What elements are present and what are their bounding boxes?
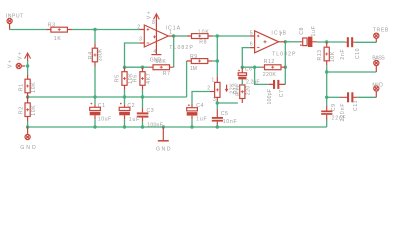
svg-text:V+: V+ — [146, 11, 152, 19]
resistor R5 — [122, 67, 127, 90]
node junction outA feedback — [172, 34, 175, 37]
svg-text:R9: R9 — [190, 54, 197, 60]
wire pot column from R8 row — [216, 36, 218, 77]
svg-text:100pF: 100pF — [267, 89, 273, 105]
wire R5 column to bias rail — [124, 90, 126, 97]
wire pin6 row — [242, 48, 250, 68]
svg-text:GND: GND — [156, 146, 171, 152]
capacitor C6 polarized — [238, 67, 246, 79]
svg-text:C10: C10 — [355, 48, 361, 59]
resistor R8 — [187, 34, 213, 39]
svg-text:C4: C4 — [196, 103, 203, 109]
svg-text:C2: C2 — [127, 103, 134, 109]
wire R6 column to bias rail — [142, 90, 144, 97]
svg-text:GND: GND — [20, 145, 36, 151]
svg-text:C9: C9 — [331, 104, 337, 111]
supply symbol V+ arrow left — [25, 53, 31, 61]
resistor R13 — [324, 42, 329, 65]
wire V+ to R1 — [27, 66, 29, 75]
wire C2 bottom stub — [124, 119, 126, 127]
svg-text:R6: R6 — [132, 75, 138, 82]
connector pad MID — [374, 86, 379, 97]
capacitor C1 polarized — [90, 103, 101, 120]
op-amp IC1B — [250, 31, 285, 53]
connector pad BASS — [374, 60, 379, 72]
capacitor C4 polarized — [187, 104, 198, 120]
svg-text:C11: C11 — [353, 100, 359, 111]
svg-text:10K: 10K — [198, 29, 210, 35]
wire R13 column lower — [326, 65, 328, 97]
svg-text:10nF: 10nF — [223, 119, 237, 125]
node junction R13 top — [325, 40, 328, 43]
node junction R3/R4 — [93, 28, 96, 31]
svg-text:C3: C3 — [147, 108, 154, 114]
node junction gnd C1 — [93, 125, 96, 128]
svg-text:10K: 10K — [330, 51, 336, 62]
capacitor C10 — [345, 37, 355, 47]
svg-text:3: 3 — [213, 97, 216, 103]
wire R8 right to pin5 — [213, 35, 250, 37]
svg-text:8: 8 — [152, 20, 155, 26]
svg-text:2.2nF: 2.2nF — [246, 79, 260, 85]
node junction R12 right — [284, 66, 287, 69]
connector pad GND — [25, 127, 30, 140]
wire pot bottom row — [217, 101, 238, 103]
resistor R12 — [261, 65, 285, 70]
wire pin3 row — [125, 43, 140, 67]
capacitor C8 polarized — [300, 37, 317, 47]
svg-text:1K: 1K — [54, 36, 62, 42]
svg-text:10K: 10K — [31, 82, 37, 93]
node junction gnd C4 — [190, 125, 193, 128]
svg-text:1M: 1M — [190, 66, 197, 72]
wire R12 row left — [242, 66, 261, 68]
node junction C6 top — [241, 66, 244, 69]
capacitor C7 — [269, 80, 286, 89]
svg-text:R8: R8 — [199, 40, 206, 46]
svg-text:BASS: BASS — [372, 56, 385, 62]
svg-text:2nF: 2nF — [340, 49, 346, 60]
wire C2 top stub — [124, 97, 126, 104]
wire feedback column A — [173, 36, 175, 67]
wire R9 right gap — [212, 60, 217, 62]
wire C5 column — [216, 103, 218, 110]
svg-text:5: 5 — [250, 30, 253, 36]
capacitor C2 polarized — [119, 103, 130, 120]
wire R4 column upper — [94, 30, 96, 44]
svg-text:R12: R12 — [264, 59, 275, 65]
node junction bias C1 — [93, 95, 96, 98]
capacitor C11 — [340, 92, 357, 102]
resistor R1 — [25, 75, 30, 97]
svg-text:10K: 10K — [31, 105, 37, 116]
svg-text:C7: C7 — [279, 90, 285, 97]
capacitor C3 — [137, 108, 149, 121]
wire C9 bottom to gnd rail — [326, 120, 328, 128]
wire MID row right — [357, 96, 376, 98]
wire C7 left column — [255, 67, 269, 84]
svg-text:C1: C1 — [98, 103, 105, 109]
wire C8 to C10 — [317, 41, 345, 43]
resistor R11 — [240, 79, 245, 103]
wire C9 top stub — [326, 97, 328, 106]
wire R9 left column to bias rail — [186, 61, 188, 97]
ground symbol IC1A pin4 — [151, 54, 161, 56]
svg-text:220nF: 220nF — [340, 104, 346, 122]
wire C1 top stub — [94, 97, 96, 104]
svg-text:R7: R7 — [163, 71, 170, 77]
svg-text:1: 1 — [211, 77, 214, 83]
node junction V+ — [26, 64, 29, 67]
wire outB to C8 — [285, 41, 299, 43]
svg-text:C6: C6 — [245, 67, 252, 73]
svg-text:330K: 330K — [98, 48, 104, 61]
svg-text:C5: C5 — [221, 111, 228, 117]
wire ground rail — [28, 126, 327, 128]
svg-text:R4: R4 — [88, 52, 94, 59]
wire R7 row left — [125, 66, 149, 68]
wire C4 bottom stub — [191, 119, 193, 127]
node junction pot bottom — [216, 101, 219, 104]
resistor R3 — [46, 27, 72, 32]
svg-text:1uF: 1uF — [129, 117, 140, 123]
node junction MID/C9 — [325, 96, 328, 99]
supply symbol V+ arrow IC1A — [154, 14, 160, 31]
svg-text:2: 2 — [207, 86, 210, 92]
resistor R7 — [149, 65, 174, 70]
potentiometer R10 — [210, 77, 228, 101]
svg-text:220: 220 — [246, 86, 252, 96]
svg-text:V+: V+ — [17, 52, 23, 60]
connector pad TREB — [374, 33, 379, 42]
svg-text:INPUT: INPUT — [6, 14, 24, 20]
capacitor C5 — [212, 110, 223, 125]
svg-text:7: 7 — [279, 32, 282, 38]
wire C3 bottom stub — [142, 121, 144, 127]
capacitor C9 — [321, 106, 332, 120]
node junction gnd C3 — [141, 125, 144, 128]
node junction out B — [284, 40, 287, 43]
wire C1 bottom stub — [94, 119, 96, 127]
svg-text:GND: GND — [150, 58, 162, 64]
svg-text:100nF: 100nF — [147, 123, 163, 129]
connector pad INPUT — [7, 18, 12, 29]
wire out A to R8 — [174, 35, 187, 37]
svg-text:4: 4 — [153, 49, 156, 55]
wire input row — [10, 29, 47, 31]
svg-text:10uF: 10uF — [98, 117, 112, 123]
wire input row right of R3 — [72, 29, 140, 31]
svg-text:C8: C8 — [299, 27, 305, 34]
svg-text:R3: R3 — [48, 22, 55, 28]
node junction C7 branch — [253, 66, 256, 69]
node junction gnd C2 — [123, 125, 126, 128]
op-amp IC1A — [140, 25, 174, 54]
svg-text:TREB: TREB — [373, 28, 389, 34]
svg-text:2: 2 — [137, 25, 140, 31]
node junction R6 top — [141, 66, 144, 69]
ground symbol bottom rail — [158, 127, 169, 141]
node junction bias R1R2 — [26, 95, 29, 98]
wire bias rail — [28, 96, 187, 98]
node junction BASS — [325, 70, 328, 73]
connector pad V+ — [16, 63, 25, 68]
svg-text:TL082P: TL082P — [169, 45, 193, 51]
svg-text:R1: R1 — [18, 84, 24, 91]
svg-text:1uF: 1uF — [196, 116, 207, 122]
wire R2 bottom to gnd rail — [27, 121, 29, 127]
wire MID row left — [327, 96, 340, 98]
node junction gnd rail left — [26, 125, 29, 128]
wire BASS row — [327, 71, 377, 73]
svg-text:R13: R13 — [317, 50, 323, 61]
wire wiper row — [192, 92, 210, 104]
svg-text:1: 1 — [169, 30, 172, 36]
svg-text:1uF: 1uF — [311, 26, 317, 37]
svg-text:R11: R11 — [236, 85, 242, 96]
wire C3 top stub — [142, 97, 144, 108]
resistor R4 — [92, 43, 97, 66]
node junction gnd C5 — [216, 125, 219, 128]
node junction bias C2 — [123, 95, 126, 98]
svg-text:TL082P: TL082P — [272, 52, 296, 58]
svg-text:6: 6 — [250, 42, 253, 48]
svg-text:IC1A: IC1A — [166, 26, 181, 32]
node junction gnd symbol — [162, 125, 165, 128]
wire pin7 column — [284, 42, 286, 85]
node junction pin3/R5 — [123, 66, 126, 69]
resistor R9 — [187, 59, 213, 64]
node junction bias C3 — [141, 95, 144, 98]
wire C5 bottom stub — [216, 125, 218, 128]
wire R4 column lower to bias rail — [94, 67, 96, 97]
wire V+ arrow stem — [27, 60, 29, 66]
node junction R8 right — [216, 34, 219, 37]
svg-text:MID: MID — [372, 82, 383, 88]
node junction R9 right — [216, 59, 219, 62]
svg-text:V+: V+ — [8, 60, 14, 68]
svg-text:220K: 220K — [263, 72, 277, 78]
svg-text:4K7: 4K7 — [146, 73, 152, 84]
svg-text:3: 3 — [139, 37, 142, 43]
svg-text:R2: R2 — [18, 107, 24, 114]
resistor R6 — [140, 67, 145, 90]
svg-text:R5: R5 — [114, 75, 120, 82]
wire C10 to TREB — [355, 41, 377, 43]
resistor R2 — [25, 97, 30, 121]
